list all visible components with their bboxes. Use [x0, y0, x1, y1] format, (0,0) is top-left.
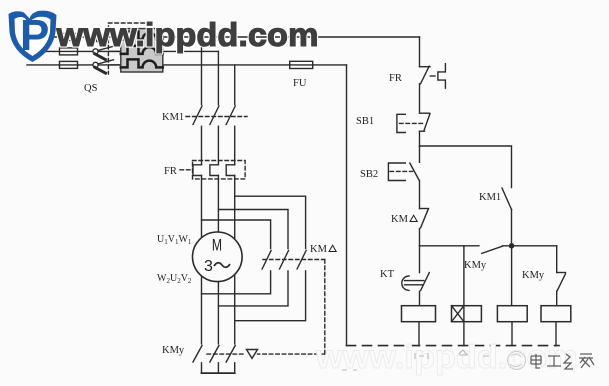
thermal overload FR heater box	[180, 161, 245, 179]
coil KMy	[497, 246, 527, 346]
timer KT delayed contact	[402, 246, 430, 306]
bottom rail (dashed look)	[347, 345, 560, 347]
svg-text:KMy: KMy	[522, 270, 545, 281]
ghost logo circle bottom	[508, 352, 526, 370]
QS mechanical link dashed	[108, 23, 151, 74]
wire branch V2 to KM-delta contact 2	[218, 210, 288, 249]
coil KM1	[541, 306, 571, 346]
pushbutton SB1 (NC)	[397, 113, 430, 146]
contactor KMy NC contact (right)	[557, 246, 566, 306]
motor M circle	[193, 232, 243, 282]
svg-text:SB2: SB2	[360, 169, 378, 180]
svg-text:U1V1W1: U1V1W1	[157, 234, 192, 246]
svg-text:KM1: KM1	[162, 112, 184, 123]
contactor KM-delta NC interlock contact	[420, 209, 429, 246]
contactor KM1 aux contact	[502, 188, 512, 246]
switch QS pole 3	[93, 60, 121, 73]
wire main vertical V2	[217, 51, 219, 373]
svg-text:www.ippdd.com: www.ippdd.com	[55, 16, 318, 53]
wire main vertical V1	[201, 37, 203, 373]
fuse on L2	[60, 48, 78, 55]
svg-text:KM: KM	[391, 214, 409, 225]
control rail top segment	[419, 37, 421, 67]
text dian-gong-zhi-jia	[531, 354, 594, 369]
wire branch to KM1 self-hold	[420, 146, 512, 188]
switch QS pole 2	[93, 46, 121, 59]
star point bar	[202, 372, 235, 374]
svg-text:KM: KM	[310, 244, 328, 255]
wire main vertical V3	[234, 65, 236, 373]
wire branch V1 to KM-delta contact 1	[202, 220, 271, 249]
svg-text:P: P	[20, 11, 49, 60]
junction dot	[509, 243, 515, 249]
svg-text:FR: FR	[164, 166, 177, 177]
contactor KMy aux contact (horizontal)	[482, 246, 503, 253]
contactor KM1 main contacts	[186, 106, 247, 125]
motor tilde	[214, 263, 230, 268]
contactor KMy main contacts	[193, 346, 244, 363]
wire phase L2 horizontal	[30, 50, 218, 52]
svg-text:SB1: SB1	[356, 116, 374, 127]
fuse on L3	[60, 61, 78, 68]
svg-text:FU: FU	[293, 78, 307, 89]
FR control NC contact	[420, 64, 446, 113]
contactor KM-delta contacts	[262, 251, 325, 270]
svg-text:KM1: KM1	[479, 192, 501, 203]
switch QS pole 1	[93, 32, 121, 45]
wire phase L3 horizontal	[27, 64, 347, 66]
wire FU feed down right side of main	[346, 65, 348, 346]
wire phase L1 top horizontal	[28, 36, 420, 38]
triangle marker	[247, 350, 258, 359]
wire KM-delta bottoms back to verticals	[202, 271, 271, 294]
fuse on L1	[60, 34, 78, 41]
breaker block (gray box)	[121, 29, 163, 72]
svg-text:3: 3	[204, 258, 213, 275]
svg-text:FR: FR	[389, 73, 402, 84]
wire branch V3 to KM-delta contact 3	[235, 196, 306, 248]
svg-text:M: M	[212, 237, 222, 255]
svg-text:W2U2V2: W2U2V2	[157, 273, 192, 285]
wire KT coil feed	[463, 246, 465, 306]
coil KM-delta	[402, 306, 436, 346]
svg-text:KMy: KMy	[464, 260, 487, 271]
logo shield	[9, 11, 57, 62]
pushbutton SB2 (NO)	[388, 146, 419, 209]
svg-text:QS: QS	[84, 83, 98, 94]
label KM-delta triangles drawn	[329, 215, 417, 251]
svg-text:KT: KT	[380, 269, 395, 280]
ghost label remnants under coils	[342, 350, 489, 370]
wire branch row y=245.8	[420, 245, 479, 247]
fuse FU on L3	[290, 61, 313, 68]
svg-text:KMy: KMy	[162, 345, 185, 356]
KM-delta link dashed down/left	[258, 260, 325, 355]
coil KT with X box	[452, 306, 482, 346]
